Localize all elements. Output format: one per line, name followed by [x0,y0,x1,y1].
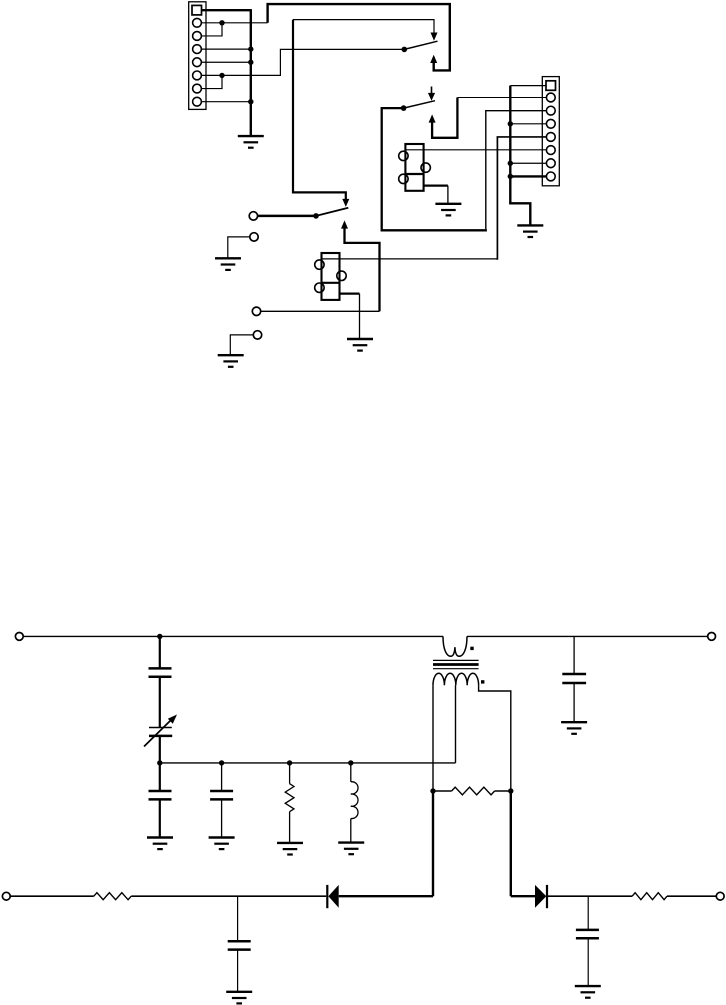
transformer TX1 primary winding [443,636,467,656]
wire J2 square pin to right bus [510,85,546,87]
switch S1 lever [404,41,437,49]
wire [131,895,326,897]
terminal TBR [716,892,724,900]
diode D2 [535,885,547,908]
transformer TX1 secondary phase dot [481,680,484,683]
resistor R5 (across secondary) [433,787,511,795]
wire J2 pin6 to bus [510,162,546,164]
ground GE [561,722,587,734]
terminal T4 [253,331,261,339]
terminal T1 [249,212,257,220]
wire [159,763,161,791]
switch S1 NO contact arrow (up) [430,55,437,63]
wire [667,895,716,897]
wire right bus vertical [510,86,530,226]
capacitor C2 [149,791,172,799]
ground GD [338,843,364,855]
wire J1 pin5 to switch S1 pivot [202,49,405,75]
transformer TX1 primary phase dot [470,647,473,650]
ground GA [147,838,173,850]
connector J1 (left 8-pin terminal strip) [189,2,206,110]
node junction top rail [157,634,162,639]
node junction pin3 [248,46,253,51]
wire switch S1 NC contact to switch S3 NC contact [293,20,434,33]
resistor R4 [632,893,667,900]
switch S2 NC contact arrow (down, unconnected) [431,87,433,94]
relay coil K2 [315,253,347,300]
node junction pin4 [248,60,253,65]
wire T4 to ground [230,335,253,355]
wire secondary left end down [432,685,434,791]
capacitor C1 [149,668,172,676]
wire right secondary leg down [510,791,512,896]
wire down to S3 NC arrow [293,20,346,200]
switch S3 lever [316,208,348,216]
wire top rail right [467,635,708,637]
node junction [287,760,292,765]
wire S2 pivot loop to J2 pin2 [382,108,487,230]
wire [159,677,161,728]
node junction [430,788,435,793]
ground G1 [238,136,264,148]
wire J2 pin3 to bus [510,123,546,125]
ground GB [209,838,235,850]
wire J1 pin3 to bus [202,48,251,50]
wire ground bus vertical [250,9,252,136]
wire J1 pin2 to pin1 [202,23,223,36]
ground GC [277,843,303,855]
wire pin1 net to switch S1 NO contact (top loop) [268,4,450,70]
terminal T2 [250,233,258,241]
relay coil K1 [399,144,431,191]
transformer TX1 core [433,660,479,668]
node junction [219,760,224,765]
wire J1 pin1 [202,22,268,24]
node junction J2 pin7 [508,174,513,179]
wire tank bus horizontal [160,762,456,764]
wire K1 top terminal to J2 pin5 [405,149,546,151]
switch S2 lever [404,101,435,108]
wire T2 to ground [228,237,250,258]
inductor L1 branch [350,763,352,782]
wire top rail left [23,635,443,637]
capacitor C4 (top right) [573,636,575,674]
terminal TL [15,633,23,641]
switch S3 NC contact arrow (down) [342,199,349,207]
node junction J2 pin3 [508,121,513,126]
ground G3 [517,225,543,237]
wire [159,736,161,763]
terminal TR [708,633,716,641]
terminal TBL [2,892,10,900]
terminal T3 [252,307,260,315]
node junction pin5 [219,73,224,78]
wire main left branch [159,636,161,668]
wire secondary right end [479,685,511,791]
capacitor C5 branch [237,896,239,941]
node junction pin7 [248,99,253,104]
wire J1 square pin to ground bus [202,9,251,11]
wire K2 top terminal to J2 pin4 [322,258,498,260]
resistor R2 branch [289,763,291,784]
node junction [508,788,513,793]
wire S3 NO contact to terminal T3 [345,228,380,312]
ground G5 [347,339,373,351]
wire J1 pin7 to bus [202,101,251,103]
node junction [157,760,162,765]
wire K1 bottom terminal to ground [424,184,448,186]
capacitor C3 branch [221,763,223,791]
transformer TX1 secondary winding [433,673,479,685]
diode D1 [327,885,338,908]
wire left secondary leg down [432,791,434,896]
wire to T3 [261,310,380,312]
wire [547,895,632,897]
node junction [348,760,353,765]
switch S2 pivot [401,105,407,111]
wire J1 pin6 to pin5 [202,75,223,88]
wire T1 to switch S3 pivot [258,215,316,218]
switch S1 NC contact arrow (down) [431,33,438,41]
node junction pin1 [219,20,224,25]
capacitor C6 branch [587,896,589,930]
wire J2 pin7 to bus [510,175,546,177]
wire bottom left rail [10,895,94,897]
switch S3 NO contact arrow (up) [341,220,348,228]
wire [159,799,161,837]
ground G2 [435,204,461,216]
variable capacitor CV1 [144,715,177,747]
wire right secondary leg to diode D2 [511,895,535,897]
ground GF [226,992,252,1004]
wire K2 bottom terminal to ground [340,292,360,294]
wire S2 NO contact to J2 pin1 [432,98,457,138]
wire D1 to left secondary leg [339,895,433,897]
ground GG [575,986,601,998]
wire J1 pin4 to bus [202,61,251,63]
resistor R3 [94,893,131,900]
switch S3 pivot [313,213,319,219]
wire secondary centre tap down [455,685,457,763]
ground G4 [215,258,241,270]
ground G6 [218,355,244,367]
node junction J2 pin6 [508,161,513,166]
switch S1 pivot [402,47,408,53]
connector J2 (right 8-pin terminal strip) [542,77,559,186]
switch S2 NO contact arrow (up) [429,114,436,122]
